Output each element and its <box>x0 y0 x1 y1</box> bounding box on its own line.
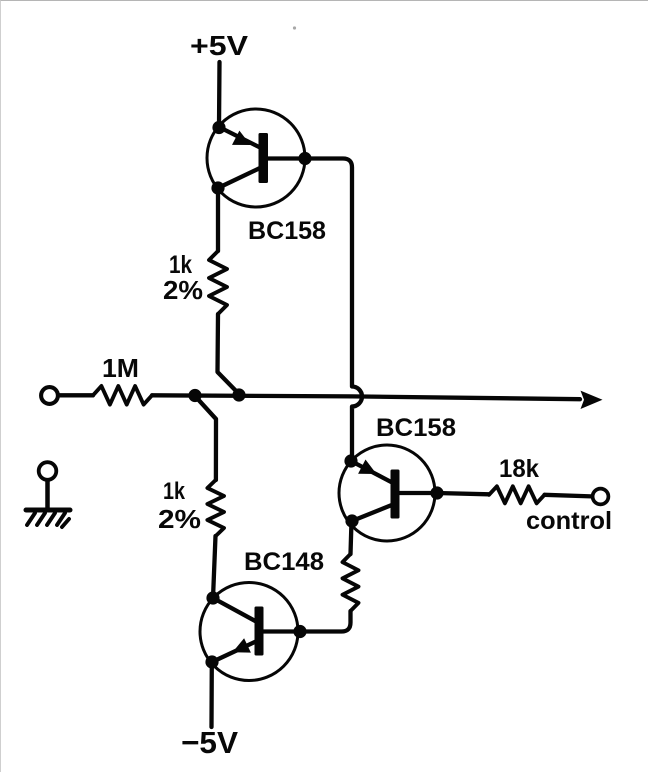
svg-text:1k: 1k <box>163 478 186 505</box>
svg-text:BC158: BC158 <box>376 414 456 442</box>
svg-text:18k: 18k <box>499 455 539 483</box>
svg-text:BC148: BC148 <box>244 548 324 576</box>
svg-text:2%: 2% <box>163 275 203 305</box>
svg-text:1M: 1M <box>102 353 139 383</box>
svg-text:−5V: −5V <box>181 725 238 760</box>
svg-text:control: control <box>526 507 612 535</box>
svg-text:2%: 2% <box>158 504 201 534</box>
svg-text:+5V: +5V <box>190 30 248 61</box>
svg-text:BC158: BC158 <box>248 217 326 245</box>
